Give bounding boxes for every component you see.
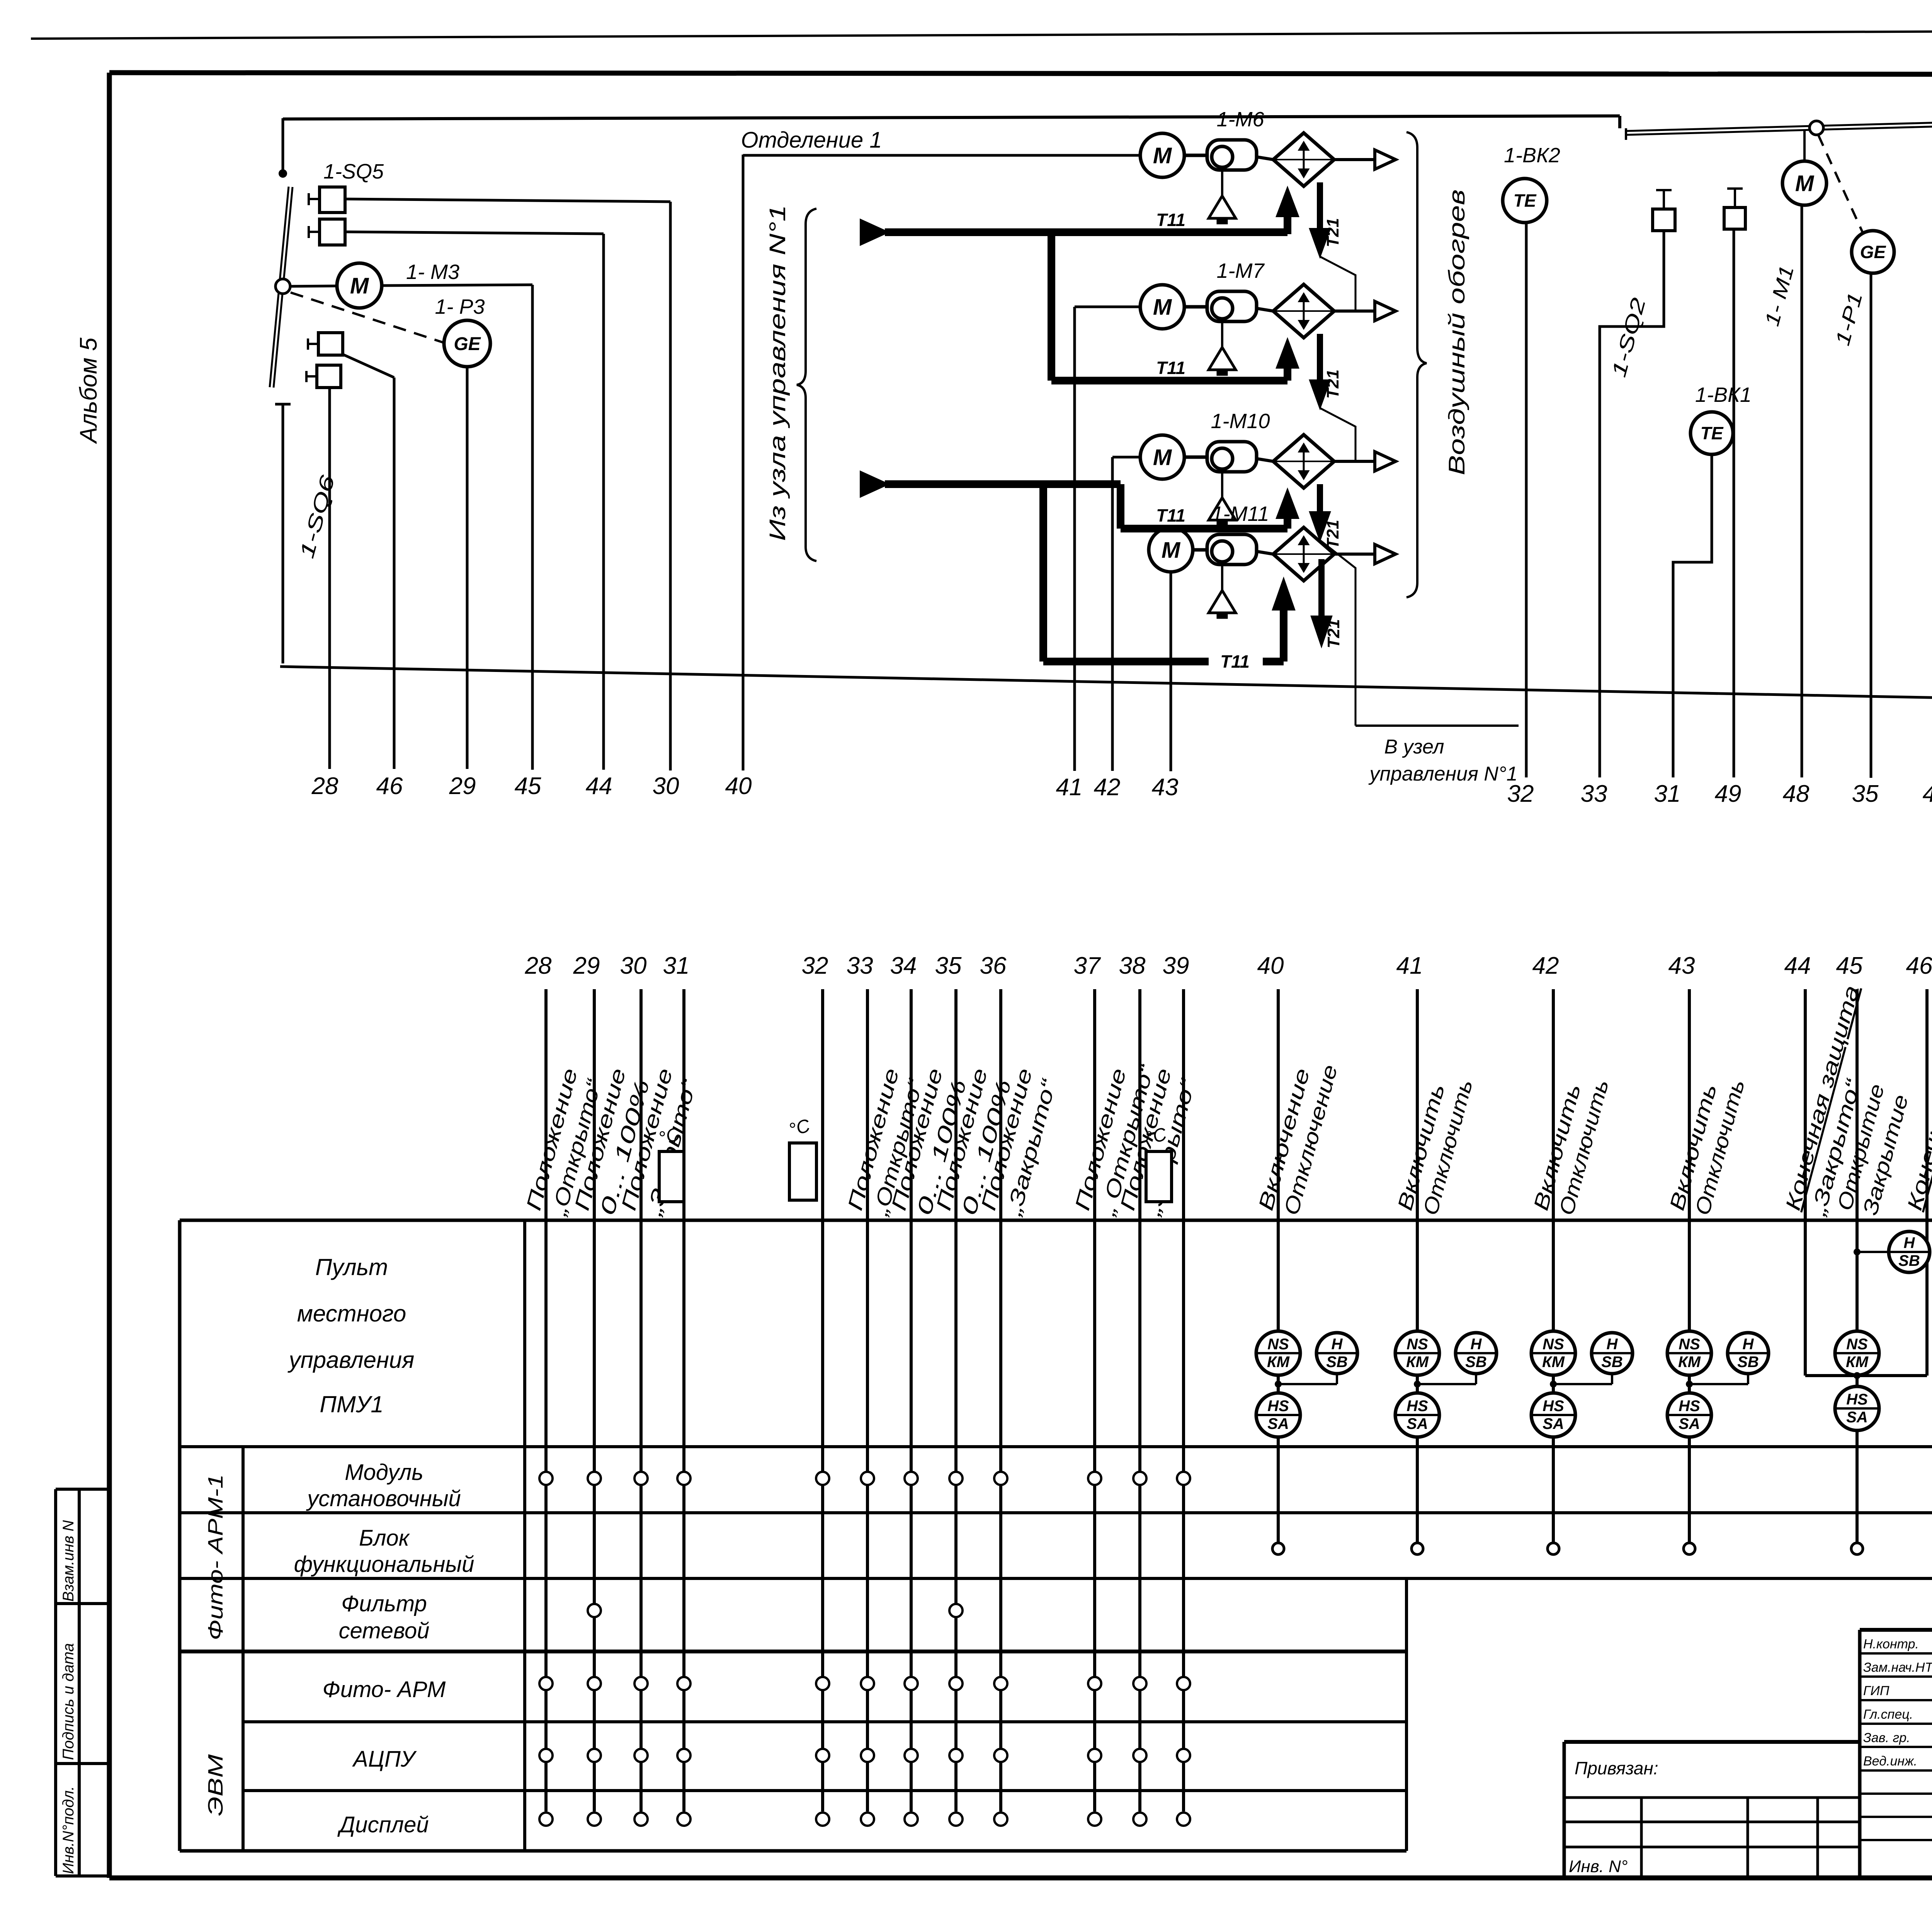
wire lower column 33 (866, 989, 869, 1811)
svg-text:Подпись и дата: Подпись и дата (60, 1643, 77, 1760)
svg-text:Блок: Блок (359, 1526, 410, 1551)
table row line 2 long (180, 1511, 1932, 1514)
brace vozdushnyj (1406, 132, 1427, 597)
svg-text:ГИП: ГИП (1863, 1684, 1889, 1698)
thin link to next unit b (1320, 408, 1355, 461)
svg-text:установочный: установочный (306, 1486, 461, 1511)
wire column 46 (393, 378, 396, 769)
connection circles row modul (539, 1472, 553, 1485)
svg-text:1-М10: 1-М10 (1211, 410, 1270, 433)
svg-text:43: 43 (1152, 774, 1179, 801)
svg-text:1- Р3: 1- Р3 (435, 295, 485, 318)
svg-text:Зам.нач.НТК: Зам.нач.НТК (1863, 1660, 1932, 1675)
svg-text:33: 33 (1581, 781, 1607, 807)
svg-text:NS: NS (1543, 1336, 1564, 1353)
svg-text:SА: SА (1267, 1415, 1289, 1432)
table pmu cell divider (523, 1220, 526, 1851)
wire lower column 36 (999, 989, 1002, 1811)
wire column 29 (466, 367, 469, 769)
control cluster col 43 (1667, 1331, 1711, 1375)
table row line 5 (243, 1720, 1406, 1723)
svg-text:М: М (1162, 537, 1181, 563)
svg-text:НS: НS (1406, 1398, 1428, 1415)
valve triangle М6 (1209, 196, 1236, 218)
up arrow into diamond 1 (1284, 215, 1291, 234)
sensor 1-P3 GE (444, 320, 490, 367)
svg-text:44: 44 (1784, 952, 1811, 979)
svg-text:42: 42 (1094, 774, 1121, 801)
diamond inner arrow М11 (1303, 537, 1305, 571)
svg-text:47: 47 (1923, 781, 1932, 807)
motor М7 (1140, 285, 1184, 329)
svg-text:НS: НS (1846, 1391, 1868, 1408)
thick wire T21 b (1317, 334, 1323, 382)
thick branch down unit2 (1048, 232, 1055, 381)
diamond inner line М7 (1273, 310, 1334, 312)
svg-text:Т11: Т11 (1156, 505, 1185, 526)
wire lower column 46 (1925, 989, 1929, 1376)
wire fan to diamond М6 (1257, 157, 1273, 160)
svg-text:Т11: Т11 (1220, 651, 1250, 672)
svg-text:Отделение 1: Отделение 1 (741, 128, 882, 153)
wire lower column 29 (593, 989, 596, 1811)
svg-text:НS: НS (1267, 1398, 1289, 1415)
motor М10 (1140, 435, 1184, 479)
svg-text:ЭВМ: ЭВМ (204, 1754, 227, 1816)
limit switch box B (1724, 207, 1745, 229)
control cluster 44-46 (1854, 1248, 1861, 1255)
svg-text:Т21: Т21 (1323, 369, 1342, 399)
paper top edge line (31, 29, 1932, 39)
diamond inner line М10 (1273, 461, 1334, 462)
svg-text:30: 30 (653, 773, 679, 799)
svg-text:Воздушный обогрев: Воздушный обогрев (1444, 189, 1469, 475)
svg-text:34: 34 (890, 952, 917, 979)
svg-text:М: М (1795, 171, 1815, 196)
svg-text:Н: Н (1904, 1235, 1915, 1252)
frame top border (109, 73, 1932, 75)
svg-text:КМ: КМ (1542, 1354, 1565, 1371)
svg-text:1- М1: 1- М1 (1761, 263, 1798, 329)
wire lower column 41 (1416, 989, 1419, 1543)
diamond inner line М6 (1273, 159, 1334, 160)
wire jog column 31 (1673, 454, 1712, 777)
svg-text:ТЕ: ТЕ (1701, 423, 1724, 443)
air heater diamond М6 (1273, 133, 1334, 186)
diamond inner line М11 (1273, 553, 1334, 555)
dashed pivot to GE P1 (1818, 135, 1869, 247)
valve stem М10 (1221, 469, 1223, 498)
svg-text:В узел: В узел (1384, 736, 1444, 758)
stamp box verticals (54, 1489, 57, 1876)
svg-text:NS: NS (1679, 1336, 1700, 1353)
thick wire T11 lower (885, 480, 1121, 488)
svg-text:КМ: КМ (1678, 1354, 1701, 1371)
wire column 35 (1870, 273, 1872, 778)
sensor 1-BK1 TE (1690, 412, 1733, 454)
air heater diamond М11 (1273, 527, 1334, 581)
diamond inner arrow М6 (1303, 143, 1305, 176)
wire motor М7 feed (1075, 306, 1140, 308)
fan symbol М11 (1207, 534, 1257, 565)
wire fan to diamond М7 (1257, 308, 1273, 311)
svg-text:Фильтр: Фильтр (341, 1591, 427, 1616)
svg-text:SB: SB (1326, 1354, 1348, 1371)
svg-text:1-SQ5: 1-SQ5 (323, 160, 384, 183)
wire pivot to motor M1 (1803, 130, 1806, 161)
svg-text:местного: местного (297, 1301, 406, 1327)
wire lower column 40 (1277, 989, 1280, 1543)
svg-text:1-М6: 1-М6 (1216, 108, 1264, 131)
svg-text:1-SQ6: 1-SQ6 (296, 473, 339, 561)
svg-text:Н: Н (1471, 1336, 1482, 1353)
wire motor М10 feed (1112, 456, 1140, 459)
connection circles row filtr (588, 1604, 601, 1617)
indicator rect 39 (1146, 1151, 1172, 1202)
svg-text:ПМУ1: ПМУ1 (320, 1391, 383, 1417)
wire column 28 (328, 388, 331, 769)
svg-text:SB: SB (1737, 1354, 1759, 1371)
table label col divider (241, 1447, 245, 1851)
wire column 32 (1525, 223, 1528, 777)
svg-text:30: 30 (620, 952, 647, 979)
svg-text:32: 32 (1507, 781, 1534, 807)
window pivot node 1 (1810, 121, 1823, 135)
svg-text:°С: °С (787, 1115, 812, 1140)
wire diamond output М6 (1334, 158, 1375, 161)
svg-text:Н: Н (1743, 1336, 1754, 1353)
svg-text:48: 48 (1783, 781, 1810, 807)
wire column 42 (1111, 457, 1114, 771)
svg-text:46: 46 (376, 773, 403, 799)
fan symbol М7 (1207, 291, 1257, 321)
svg-text:Гл.спец.: Гл.спец. (1863, 1707, 1913, 1722)
limit switch 1-SQ6 box b (317, 365, 341, 388)
wire M to fan М7 (1184, 305, 1207, 309)
svg-text:28: 28 (311, 773, 338, 799)
svg-text:SА: SА (1846, 1409, 1868, 1426)
valve stem М7 (1221, 319, 1223, 347)
svg-text:SА: SА (1406, 1415, 1428, 1432)
wire line A to window (283, 116, 1620, 119)
thick branch down unit4 (1039, 484, 1047, 662)
wire diamond output М11 (1334, 553, 1375, 556)
thick wire T21 a (1317, 182, 1323, 231)
valve triangle М11 (1209, 590, 1236, 613)
wire M3 to col45 (382, 285, 532, 286)
svg-text:Фито- АРМ-1: Фито- АРМ-1 (204, 1474, 227, 1640)
wire M to fan М11 (1193, 548, 1207, 552)
louver pivot node (276, 279, 290, 294)
svg-text:NS: NS (1267, 1336, 1289, 1353)
svg-text:43: 43 (1668, 952, 1695, 979)
svg-text:1-SQ2: 1-SQ2 (1607, 296, 1650, 380)
svg-text:42: 42 (1532, 952, 1559, 979)
svg-text:НS: НS (1679, 1398, 1700, 1415)
control cluster col 40 (1256, 1331, 1300, 1375)
thick wire T21 c (1317, 484, 1323, 514)
wire M to fan М6 (1184, 154, 1207, 157)
svg-text:SА: SА (1679, 1415, 1700, 1432)
dashed link pivot to GE P3 (291, 293, 445, 343)
wire jog column 33 (1600, 231, 1664, 777)
svg-text:Из узла управления N°1: Из узла управления N°1 (765, 205, 790, 541)
svg-text:44: 44 (586, 773, 612, 799)
attach grid h1 (1564, 1796, 1860, 1799)
wire M to fan М10 (1184, 456, 1207, 459)
table bottom line (180, 1849, 1406, 1853)
wire column 45 (531, 285, 534, 770)
fan symbol М10 (1207, 442, 1257, 472)
svg-text:1-ВК2: 1-ВК2 (1504, 144, 1560, 167)
svg-text:40: 40 (1257, 952, 1284, 979)
valve triangle М7 (1209, 347, 1236, 370)
svg-text:М: М (350, 273, 369, 298)
thick wire T11 unit3 (1121, 525, 1287, 532)
svg-text:SB: SB (1898, 1252, 1920, 1269)
stamp box horizontals (56, 1488, 109, 1491)
svg-text:Фито- АРМ: Фито- АРМ (323, 1677, 446, 1702)
svg-text:40: 40 (725, 773, 752, 799)
air heater diamond М7 (1273, 284, 1334, 338)
svg-text:45: 45 (1836, 952, 1863, 979)
limit switch 1-SQ5 box a (320, 187, 345, 213)
supply triangle T11 upper (861, 220, 887, 244)
attach grid h3 (1564, 1846, 1860, 1849)
svg-text:GE: GE (454, 334, 481, 354)
svg-text:41: 41 (1056, 774, 1083, 801)
sensor 1-BK2 TE (1503, 179, 1547, 223)
svg-text:SB: SB (1601, 1354, 1623, 1371)
wire lower column 32 (821, 989, 824, 1811)
svg-text:1-ВК1: 1-ВК1 (1695, 383, 1752, 406)
limit switch box A (1653, 209, 1675, 231)
svg-text:36: 36 (980, 952, 1007, 979)
wire diamond output М10 (1334, 460, 1375, 463)
svg-text:Т21: Т21 (1324, 619, 1343, 648)
svg-text:Взам.инв N: Взам.инв N (60, 1520, 77, 1602)
uzel flag line (1355, 724, 1519, 727)
air heater diamond М10 (1273, 435, 1334, 488)
svg-text:SB: SB (1465, 1354, 1487, 1371)
connection circles row fito (539, 1677, 553, 1690)
window bar 1 (1626, 124, 1932, 135)
diamond inner arrow М10 (1303, 445, 1305, 478)
wire lower column 44 (1804, 989, 1807, 1376)
control cluster col 42 (1531, 1331, 1575, 1375)
wire column 40 (742, 155, 745, 770)
svg-text:Вед.инж.: Вед.инж. (1863, 1754, 1917, 1769)
svg-text:32: 32 (802, 952, 828, 979)
svg-text:1-М7: 1-М7 (1216, 259, 1265, 282)
thin link to next unit a (1320, 257, 1355, 311)
svg-text:Дисплей: Дисплей (337, 1812, 429, 1837)
wire column 41 (1073, 307, 1076, 771)
svg-text:29: 29 (573, 952, 600, 979)
frame left border (107, 73, 112, 1878)
svg-text:АЦПУ: АЦПУ (352, 1747, 417, 1772)
wire column 48 (1801, 205, 1803, 777)
wire motor М6 feed (743, 154, 1140, 157)
node terminal antenna lower (275, 403, 291, 406)
wire column 49 (1733, 229, 1735, 777)
wire fan to diamond М11 (1257, 551, 1273, 554)
wire column 44 (602, 234, 605, 770)
svg-text:41: 41 (1396, 952, 1423, 979)
wire SQ5a to col30 (345, 199, 670, 202)
motor 1-M1 (1782, 161, 1827, 205)
output open arrow М11 (1375, 544, 1396, 564)
up arrow into diamond 2 (1284, 366, 1291, 381)
wire column 43 (1170, 572, 1172, 771)
svg-text:31: 31 (663, 952, 690, 979)
svg-text:Инв. N°: Инв. N° (1569, 1857, 1628, 1876)
wire lower column 35 (954, 989, 957, 1811)
wire lower column 43 (1688, 989, 1691, 1543)
svg-text:Модуль: Модуль (345, 1460, 423, 1485)
table section line (180, 1650, 1406, 1653)
limit switch 1-SQ6 box a (318, 333, 343, 355)
wire lower column 42 (1552, 989, 1555, 1543)
svg-text:45: 45 (515, 773, 541, 799)
table left border (178, 1220, 182, 1851)
wire lower column 45 (1855, 989, 1859, 1543)
indicator rect 32 (789, 1143, 816, 1200)
up arrow into diamond 3 (1284, 517, 1291, 529)
svg-text:NS: NS (1406, 1336, 1428, 1353)
wire lower column 38 (1138, 989, 1141, 1811)
wire column 30 (669, 202, 672, 770)
motor М6 (1140, 133, 1184, 177)
svg-text:Альбом 5: Альбом 5 (75, 337, 102, 444)
wire SQ6a to col46 (343, 354, 394, 378)
svg-text:М: М (1153, 143, 1172, 168)
diamond inner arrow М7 (1303, 294, 1305, 328)
output open arrow М7 (1375, 301, 1396, 321)
svg-text:М: М (1153, 445, 1172, 470)
wire lower column 31 (682, 989, 685, 1811)
svg-text:КМ: КМ (1267, 1354, 1290, 1371)
table right border (1405, 1578, 1408, 1851)
table row line 6 (243, 1789, 1406, 1792)
supply triangle T11 lower (861, 472, 887, 496)
svg-text:НS: НS (1543, 1398, 1564, 1415)
wire lower column 37 (1093, 989, 1096, 1811)
wire lower column 39 (1182, 989, 1185, 1811)
svg-text:28: 28 (525, 952, 552, 979)
svg-text:37: 37 (1074, 952, 1101, 979)
svg-text:SА: SА (1543, 1415, 1564, 1432)
svg-text:39: 39 (1163, 952, 1189, 979)
sig table rows (1860, 1652, 1932, 1655)
connection circles row acpu (539, 1749, 553, 1762)
svg-text:КМ: КМ (1406, 1354, 1429, 1371)
svg-text:Н: Н (1332, 1336, 1343, 1353)
wire bottom bus (280, 667, 1932, 730)
title attach left (1563, 1742, 1566, 1878)
svg-text:35: 35 (935, 952, 962, 979)
brace iz uzla (797, 209, 816, 561)
svg-text:Т21: Т21 (1323, 218, 1342, 247)
svg-text:1- М3: 1- М3 (406, 260, 459, 284)
svg-text:сетевой: сетевой (339, 1618, 430, 1643)
table row line 1 long (180, 1445, 1932, 1448)
wire lower column 34 (910, 989, 913, 1811)
svg-text:управления: управления (287, 1347, 415, 1373)
indicator rect 31 (659, 1151, 684, 1202)
valve stem М11 (1221, 562, 1223, 590)
svg-text:Пульт: Пульт (315, 1254, 388, 1280)
fan symbol М6 (1207, 140, 1257, 170)
svg-text:управления N°1: управления N°1 (1368, 763, 1517, 785)
thick branch up unit3 (1117, 484, 1124, 529)
wire SQ5b to col44 (345, 232, 604, 234)
sig table outer (1860, 1628, 1932, 1632)
thick wire T11 unit4 (1043, 658, 1284, 665)
svg-text:М: М (1153, 294, 1172, 320)
svg-text:ТЕ: ТЕ (1514, 190, 1537, 211)
table top line (180, 1219, 1932, 1222)
motor 1-M3 (337, 263, 382, 308)
svg-text:29: 29 (449, 773, 476, 799)
svg-text:КМ: КМ (1846, 1354, 1869, 1371)
svg-text:Н.контр.: Н.контр. (1863, 1637, 1919, 1651)
node terminal antenna upper (282, 118, 284, 170)
label T11 unit4 (1209, 651, 1263, 672)
svg-text:Привязан:: Привязан: (1575, 1758, 1658, 1778)
wire lower column 28 (544, 989, 548, 1811)
attach grid v (1640, 1798, 1643, 1878)
svg-text:Н: Н (1607, 1336, 1618, 1353)
wire fan to diamond М10 (1257, 459, 1273, 461)
svg-text:1-Р1: 1-Р1 (1831, 290, 1867, 348)
limit switch 1-SQ5 box b (320, 219, 345, 245)
thick wire T11 unit1 (885, 228, 1287, 236)
thin link to uzel (1320, 540, 1355, 726)
svg-text:38: 38 (1119, 952, 1146, 979)
valve stem М6 (1221, 167, 1223, 196)
svg-text:функциональный: функциональный (294, 1552, 474, 1577)
wire pivot to M3 (290, 286, 337, 286)
svg-text:49: 49 (1715, 781, 1742, 807)
frame bottom border (109, 1876, 1932, 1881)
svg-text:1-М11: 1-М11 (1211, 502, 1269, 526)
svg-text:Инв.N°подл.: Инв.N°подл. (60, 1786, 77, 1874)
output open arrow М6 (1375, 150, 1396, 169)
svg-text:Т11: Т11 (1156, 210, 1185, 230)
thick wire T11 unit2 (1051, 377, 1287, 384)
svg-text:Зав. гр.: Зав. гр. (1863, 1730, 1910, 1745)
sensor 1-P1 GE (1852, 231, 1894, 273)
louver bar (274, 187, 293, 388)
valve triangle М10 (1209, 498, 1236, 520)
motor М11 (1149, 528, 1193, 572)
wire diamond output М7 (1334, 310, 1375, 313)
wire lower column 30 (639, 989, 643, 1811)
svg-text:46: 46 (1906, 952, 1932, 979)
svg-text:31: 31 (1654, 781, 1681, 807)
thick wire T21 d (1318, 559, 1325, 618)
connection circles row displej (539, 1813, 553, 1826)
output open arrow М10 (1375, 452, 1396, 471)
table row line 3 long (180, 1577, 1932, 1580)
attach grid h2 (1564, 1821, 1860, 1823)
svg-text:33: 33 (847, 952, 873, 979)
svg-text:35: 35 (1852, 781, 1879, 807)
up arrow into diamond 4 (1280, 607, 1287, 662)
svg-text:GE: GE (1860, 242, 1886, 262)
svg-text:NS: NS (1846, 1336, 1868, 1353)
